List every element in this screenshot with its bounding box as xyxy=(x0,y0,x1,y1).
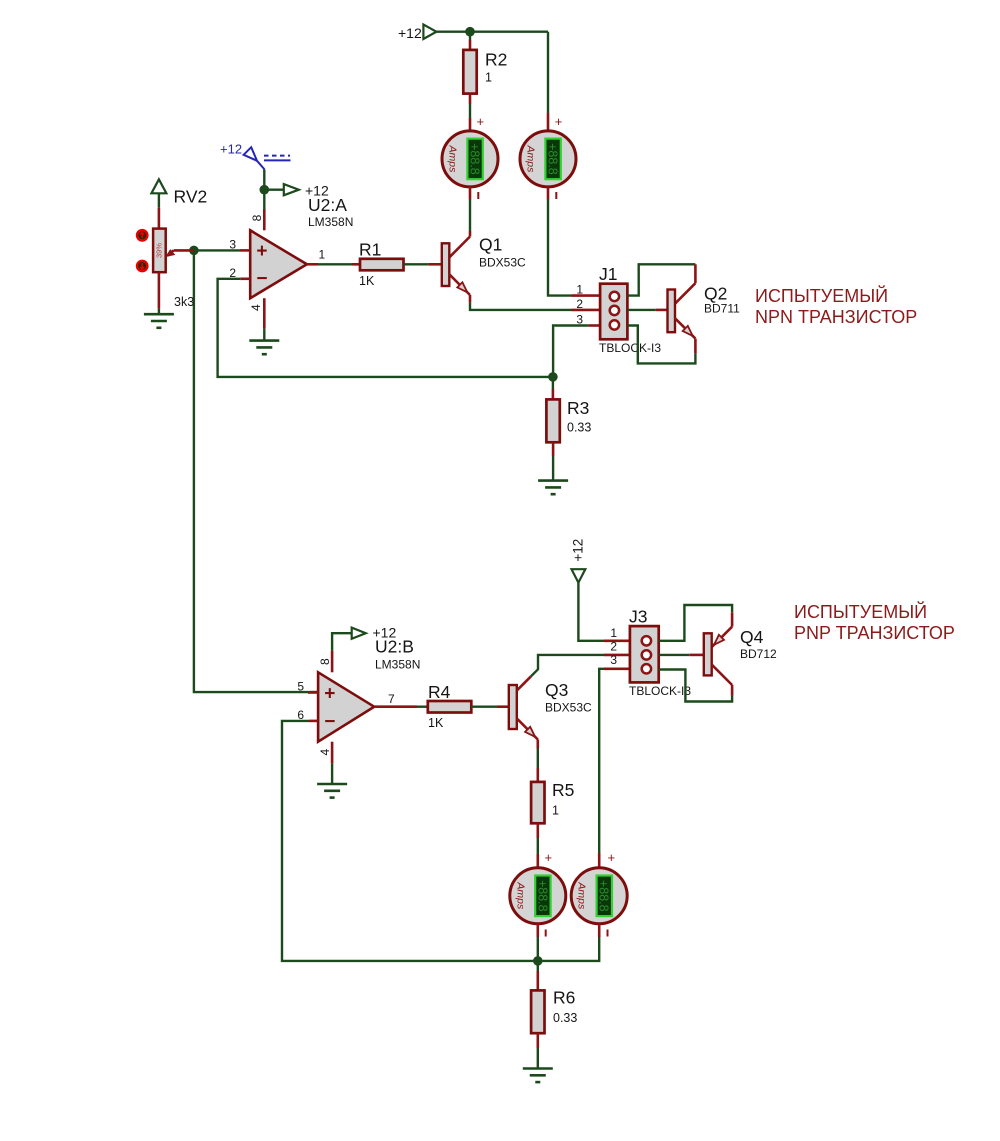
svg-text:Amps: Amps xyxy=(576,881,588,910)
ground RV2 xyxy=(144,272,174,328)
svg-text:+12: +12 xyxy=(570,539,585,562)
svg-text:TBLOCK-I3: TBLOCK-I3 xyxy=(629,684,691,698)
transistor Q1 xyxy=(442,235,526,303)
node RV2 wiper junction xyxy=(189,246,199,256)
svg-text:+: + xyxy=(608,850,616,865)
svg-text:LM358N: LM358N xyxy=(308,215,353,229)
connector J3 xyxy=(604,607,691,699)
power arrow +12 U2:A xyxy=(264,182,329,198)
ammeter AM2 minus label xyxy=(555,192,557,199)
resistor R4 xyxy=(428,682,472,730)
wire pin8 up xyxy=(263,169,265,209)
ammeter AM4 xyxy=(571,868,627,924)
svg-text:3: 3 xyxy=(610,653,617,667)
resistor R5 xyxy=(531,780,574,868)
resistor R3 xyxy=(546,398,591,480)
svg-text:+12: +12 xyxy=(305,182,329,198)
svg-text:Amps: Amps xyxy=(447,144,459,173)
svg-text:1: 1 xyxy=(485,71,492,85)
ground R3 xyxy=(538,481,568,495)
wire J3 pin3 to AM4 xyxy=(599,669,604,868)
svg-text:1K: 1K xyxy=(359,274,375,288)
svg-text:1: 1 xyxy=(552,804,559,818)
svg-text:R3: R3 xyxy=(567,398,589,418)
resistor R6 xyxy=(531,961,577,1068)
svg-text:TBLOCK-I3: TBLOCK-I3 xyxy=(599,341,661,355)
wire J3 pin1 to Q4 emitter xyxy=(659,605,732,647)
svg-text:Q4: Q4 xyxy=(740,627,764,647)
svg-text:−: − xyxy=(256,268,267,289)
ground U2:B xyxy=(317,764,347,798)
wire J1 pin1 to Q2 collector xyxy=(627,264,695,304)
svg-text:R5: R5 xyxy=(552,780,574,800)
wire Q1 emitter to J1 pin2 xyxy=(470,303,572,310)
wire AM2 to J1 pin1 xyxy=(548,187,572,296)
ammeter AM2 plus label xyxy=(555,114,563,129)
ammeter AM4 minus label xyxy=(607,930,609,937)
power arrow RV2 top xyxy=(151,179,207,228)
wire Q3 collector to J3 pin2 xyxy=(531,655,604,677)
svg-text:1: 1 xyxy=(610,626,617,640)
power terminal +12 top xyxy=(398,25,436,42)
svg-text:5: 5 xyxy=(297,680,304,694)
svg-text:J3: J3 xyxy=(629,607,647,627)
label PNP transistor xyxy=(794,601,955,643)
svg-text:3: 3 xyxy=(576,313,583,327)
svg-text:Amps: Amps xyxy=(525,144,537,173)
svg-text:NPN ТРАНЗИСТОР: NPN ТРАНЗИСТОР xyxy=(755,307,917,327)
ammeter AM3 minus label xyxy=(545,930,547,937)
svg-text:4: 4 xyxy=(318,749,332,756)
resistor R1 xyxy=(359,240,404,289)
wire J3 pin2 to Q4 base xyxy=(659,654,704,656)
ammeter AM2 xyxy=(520,131,576,187)
transistor Q2 xyxy=(668,284,741,354)
svg-text:8: 8 xyxy=(250,214,264,221)
svg-text:+: + xyxy=(324,683,335,704)
svg-text:+: + xyxy=(477,114,485,129)
wire junction to R3 xyxy=(552,377,554,400)
svg-text:R2: R2 xyxy=(485,50,507,70)
node bottom junction xyxy=(533,956,543,966)
node feedback junction top xyxy=(548,372,558,382)
op-amp U2:B xyxy=(297,637,420,764)
wire AM4 to junction xyxy=(538,924,599,961)
svg-text:BDX53C: BDX53C xyxy=(545,701,592,715)
svg-text:+88.8: +88.8 xyxy=(468,143,482,175)
svg-text:2: 2 xyxy=(576,297,583,311)
svg-text:+88.8: +88.8 xyxy=(535,880,549,912)
wire Q4 collector to J3 pin3 xyxy=(659,670,732,702)
svg-text:+12: +12 xyxy=(373,625,397,641)
node pin8 junction xyxy=(260,185,270,195)
svg-text:+88.8: +88.8 xyxy=(546,143,560,175)
svg-text:Amps: Amps xyxy=(514,881,526,910)
svg-text:LM358N: LM358N xyxy=(375,658,420,672)
svg-text:+: + xyxy=(256,241,267,262)
svg-text:Q2: Q2 xyxy=(704,284,727,304)
ammeter AM3 xyxy=(510,868,566,924)
svg-text:J1: J1 xyxy=(599,264,617,284)
svg-text:RV2: RV2 xyxy=(174,187,208,207)
svg-text:R4: R4 xyxy=(428,682,451,702)
node junction top rail xyxy=(465,27,475,37)
blue terminal +12 xyxy=(220,142,291,170)
wire U2:A pin2 net xyxy=(218,279,553,377)
connector J1 xyxy=(572,264,662,355)
svg-text:ИСПЫТУЕМЫЙ: ИСПЫТУЕМЫЙ xyxy=(755,285,888,306)
svg-text:PNP ТРАНЗИСТОР: PNP ТРАНЗИСТОР xyxy=(794,623,955,643)
wire right branch down xyxy=(547,32,549,132)
svg-text:BD711: BD711 xyxy=(704,302,740,316)
resistor R2 xyxy=(463,32,507,132)
power terminal +12 bottom xyxy=(570,539,604,641)
power arrow +12 U2:B xyxy=(332,625,396,651)
ammeter AM3 plus label xyxy=(545,850,553,865)
svg-text:+12: +12 xyxy=(220,142,242,157)
svg-text:+: + xyxy=(545,850,553,865)
svg-text:1: 1 xyxy=(576,283,583,297)
svg-text:R6: R6 xyxy=(553,988,575,1008)
svg-text:Q1: Q1 xyxy=(479,235,502,255)
wire junction to pin3 xyxy=(194,249,240,251)
wire U2:B out to R4 xyxy=(417,706,428,708)
svg-text:+12: +12 xyxy=(398,25,422,41)
svg-text:ИСПЫТУЕМЫЙ: ИСПЫТУЕМЫЙ xyxy=(794,601,927,622)
svg-text:R1: R1 xyxy=(359,240,381,260)
svg-text:−: − xyxy=(324,711,335,732)
wire U2:A out to R1 xyxy=(318,263,360,265)
ground R6 xyxy=(523,1069,553,1083)
svg-text:BDX53C: BDX53C xyxy=(479,256,526,270)
svg-text:BD712: BD712 xyxy=(740,647,777,661)
ammeter AM4 plus label xyxy=(608,850,616,865)
wire R4 to Q3 base xyxy=(471,706,509,708)
op-amp U2:A xyxy=(229,195,353,329)
wire U2:B pin6 net xyxy=(282,721,538,961)
transistor Q4 xyxy=(704,627,777,696)
svg-text:Q3: Q3 xyxy=(545,680,568,700)
potentiometer RV2 xyxy=(137,229,194,309)
svg-text:0.33: 0.33 xyxy=(567,421,591,435)
svg-text:3k3: 3k3 xyxy=(174,295,194,309)
wire J1 pin2 to Q2 base xyxy=(627,309,667,311)
transistor Q3 xyxy=(509,676,592,748)
svg-text:1: 1 xyxy=(319,248,326,262)
svg-text:1K: 1K xyxy=(428,716,444,730)
ammeter AM1 xyxy=(442,131,498,187)
wire top rail xyxy=(436,31,548,33)
wire Q3 emitter to R5 xyxy=(537,749,539,782)
ground U2:A xyxy=(249,329,279,355)
wire R1 to Q1 base xyxy=(404,263,442,265)
label NPN transistor xyxy=(755,285,917,327)
wire junction to U2:B pin5 xyxy=(194,250,318,692)
svg-text:0.33: 0.33 xyxy=(553,1011,577,1025)
svg-text:2: 2 xyxy=(610,640,617,654)
ammeter AM1 minus label xyxy=(477,192,479,199)
wire AM3 down xyxy=(536,924,539,961)
wire Q2 emitter to J1 pin3 xyxy=(627,326,695,364)
svg-text:+: + xyxy=(555,114,563,129)
svg-text:4: 4 xyxy=(249,304,263,311)
wire J1 pin3 to junction xyxy=(553,326,589,377)
wire AM1 to Q1 collector xyxy=(449,187,470,258)
ammeter AM1 plus label xyxy=(477,114,485,129)
svg-text:7: 7 xyxy=(388,692,395,706)
svg-text:39%: 39% xyxy=(155,243,164,258)
svg-text:+88.8: +88.8 xyxy=(597,880,611,912)
svg-text:8: 8 xyxy=(318,658,332,665)
